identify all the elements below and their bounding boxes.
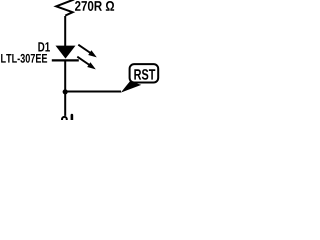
- LED D1 cathode bar: [52, 59, 79, 61]
- net flag RST box: [130, 64, 159, 82]
- LED light arrow upper: [78, 45, 97, 58]
- wire junction to RST flag: [65, 91, 121, 93]
- partial glyph at bottom edge: [71, 114, 74, 120]
- wire LED cathode down to junction and terminal: [64, 60, 66, 116]
- LED D1 triangle: [56, 46, 76, 59]
- label D1: [38, 42, 50, 51]
- LED light arrow lower: [77, 57, 96, 70]
- terminal circle (cut at bottom): [62, 117, 67, 122]
- label LTL-307EE: [1, 54, 47, 63]
- value label 270R Ω: [75, 1, 114, 11]
- net flag tail: [121, 81, 142, 92]
- net label RST: [134, 69, 155, 80]
- junction dot: [63, 89, 68, 94]
- resistor R1 (270R, partially cut at top): [56, 0, 74, 16]
- wire resistor to LED anode: [64, 16, 66, 46]
